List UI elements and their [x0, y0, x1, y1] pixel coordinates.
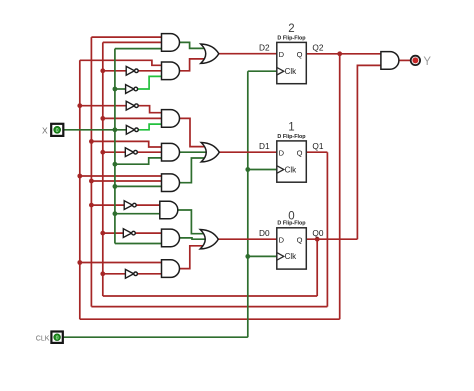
not-gate NOT-2 [126, 101, 138, 110]
wire NOT-b output to AND B in3 [137, 76, 161, 89]
wire AND G output to OR3 in3 [180, 246, 209, 269]
wire AND E output to OR2 in3 [179, 158, 209, 183]
wire Q1 output horizontal FF1.Q [306, 151, 327, 153]
svg-text:Q1: Q1 [312, 141, 323, 151]
wire X to AND D in3 jog [115, 158, 162, 164]
node CLK FF0 junction [245, 254, 250, 259]
wire Q0 vertical drop x=317.2 [316, 239, 318, 296]
wire Q0 to NOT-g input [103, 273, 126, 275]
svg-text:D: D [279, 148, 285, 157]
wire Q0 to NOT-3 input [103, 151, 126, 153]
wire CLK horizontal [63, 336, 248, 338]
svg-text:Q: Q [297, 235, 303, 244]
wire Q2 vertical drop x=339.7 [339, 54, 341, 319]
node V4 y233.1 [100, 231, 105, 236]
wire Q0 to AND A in2 [103, 41, 162, 43]
wire Q0 riser to AND-Y in2 [357, 65, 381, 239]
not-gate NOT-g [125, 269, 137, 278]
wire Q1 to AND D in1 jog [91, 141, 161, 147]
svg-text:Q2: Q2 [312, 42, 323, 52]
wire NOT-f output to AND F in1 [135, 232, 161, 234]
wire D0 OR3 output to FF0.D [218, 238, 276, 240]
node V6 y89 [113, 87, 118, 92]
and-gate Y (Q2,Q0) [381, 52, 399, 70]
flip-flop U1 (bit 1) [259, 122, 324, 183]
output pin Y [411, 56, 432, 68]
wire NOT-3 output to AND D in2 [137, 151, 161, 153]
wire CLK to FF2 clk [248, 70, 277, 72]
svg-text:1: 1 [288, 122, 294, 134]
node V4 y70.8 [100, 68, 105, 73]
wire Q2 left bus V2 x=79.8 [79, 60, 81, 319]
wire Q2 to AND E in1 [80, 175, 162, 177]
node V4 y152.2 [100, 150, 105, 155]
flip-flop U2 (bit 2) [259, 23, 324, 84]
wire Q0 to NOT-f input [103, 232, 124, 234]
not-gate NOT-x [126, 125, 138, 134]
wire CLK riser x=247.8 [247, 71, 249, 337]
or-gate OR3 feeds D0 [200, 230, 218, 249]
node V3 y205.1 [89, 203, 94, 208]
svg-text:D1: D1 [259, 141, 270, 151]
and-gate B (Q2,Q0n,Xn) [162, 62, 180, 80]
wire CLK to FF0 clk [248, 255, 277, 257]
svg-text:Clk: Clk [285, 165, 298, 174]
wire X to AND F in2 [115, 243, 162, 245]
wire CLK to FF1 clk [248, 169, 277, 171]
node V4 y273.8 [100, 271, 105, 276]
wire Q2 output horizontal FF2.Q to AND-Y in1 [306, 53, 381, 55]
node CLK FF1 junction [245, 167, 250, 172]
svg-text:Y: Y [423, 56, 431, 68]
wire Q0 to NOT-a input [103, 70, 126, 72]
wire X input to NOT-x [63, 129, 126, 131]
wire Q1 to NOT-f1 input [91, 204, 124, 206]
wire Q1 vertical drop x=327.4 [326, 152, 328, 306]
svg-text:0: 0 [56, 128, 59, 134]
and-gate A (Q1,Q0,X) [162, 34, 180, 52]
wire Q0 left bus V4 x=102.8 [102, 42, 104, 296]
and-gate F (Q0n,X) [162, 229, 180, 247]
and-gate E (Q2,Q1,X) [162, 174, 180, 192]
svg-text:D0: D0 [259, 228, 270, 238]
wire AND C output to OR2 in1 [179, 118, 209, 146]
svg-text:0: 0 [56, 335, 59, 341]
wire X to NOT-b input [115, 88, 126, 90]
wire AND D output to OR2 in2 [180, 151, 208, 153]
wire X bus V6 x=114.9 [114, 49, 116, 244]
not-gate NOT-a [126, 66, 138, 75]
wire AND F output to OR3 in2 [179, 238, 206, 239]
svg-text:0: 0 [288, 210, 294, 222]
wire NOT-g output to AND G in2 [137, 273, 161, 275]
wire X to AND A in3 [115, 48, 162, 50]
wire Q1 bottom wrap y=306.6 [91, 306, 327, 308]
and-gate G (Q2,Q0n) [162, 260, 180, 278]
svg-text:D: D [279, 235, 285, 244]
wire Q2 to NOT-2 input [80, 105, 126, 107]
flip-flop U0 (bit 0) [259, 210, 324, 269]
svg-text:CLK: CLK [36, 336, 50, 343]
node V2 y262.5 [77, 260, 82, 265]
wire Q2 bottom wrap y=319.2 [80, 318, 340, 320]
wire D2 OR1 output to FF2.D [218, 53, 276, 55]
or-gate OR2 feeds D1 [201, 143, 219, 162]
not-gate NOT-f [123, 229, 135, 238]
node V3 y141.4 [89, 139, 94, 144]
wire X to AND E in3 [115, 185, 162, 187]
and-gate D (Q1,Q0n,X) [162, 143, 180, 161]
wire Q2 top run to AND B in1 jog [80, 60, 162, 65]
wire AND F1 output to OR3 in1 [178, 210, 209, 234]
not-gate NOT-f1 [124, 201, 136, 210]
wire Q0 bottom wrap y=296 [103, 295, 317, 297]
svg-text:D Flip-Flop: D Flip-Flop [277, 134, 306, 140]
wire AND-Y output to pin Y [399, 59, 411, 61]
svg-text:X: X [42, 125, 48, 135]
wire Q1 to AND A in1 [91, 36, 161, 38]
or-gate OR1 feeds D2 [201, 44, 219, 63]
wire Q1 left bus V3 x=91.4 [90, 37, 92, 307]
wire D1 OR2 output to FF1.D [219, 151, 276, 153]
wire NOT-x output to AND C in3 [138, 124, 161, 130]
svg-text:D: D [279, 50, 285, 59]
svg-text:Q0: Q0 [312, 228, 323, 238]
input pin X [42, 124, 63, 136]
node Q0 junction [315, 237, 320, 242]
wire AND A output to OR1 in1 [179, 42, 207, 48]
svg-text:Clk: Clk [285, 252, 298, 261]
and-gate F1 (Q1n,X) [160, 201, 178, 219]
node V3 y181 [89, 179, 94, 184]
node V4 y118.4 [100, 116, 105, 121]
wire NOT-a output to AND B in2 [138, 70, 162, 72]
svg-text:Q: Q [297, 148, 303, 157]
node V2 y176 [77, 174, 82, 179]
wire X to AND F1 in2 [115, 213, 160, 215]
svg-text:D2: D2 [259, 42, 270, 52]
wire Q1 to AND E in2 [91, 180, 161, 182]
svg-text:Clk: Clk [285, 67, 298, 76]
wire Q2 to AND G in1 [80, 262, 162, 264]
node V6 y164.2 [113, 162, 118, 167]
input pin CLK [36, 332, 63, 343]
node V6 y186.4 [113, 184, 118, 189]
wire NOT-f1 output to AND F1 in1 [136, 204, 160, 206]
node V6 y213.7 [113, 211, 118, 216]
svg-text:2: 2 [288, 23, 294, 35]
node V2 y105.7 [77, 103, 82, 108]
node Q2-AND-Y junction [337, 51, 342, 56]
wire NOT-2 output to AND C in1 [138, 106, 162, 113]
node X junction on V6 [113, 127, 118, 132]
svg-text:D Flip-Flop: D Flip-Flop [277, 35, 306, 41]
svg-text:Q: Q [297, 50, 303, 59]
not-gate NOT-3 [125, 148, 137, 157]
wire AND B output to OR1 in2 [179, 59, 207, 71]
wire Q0 output horizontal FF0.Q [306, 238, 357, 240]
wire Q0 to AND C in2 [103, 117, 162, 119]
not-gate NOT-b [126, 85, 138, 94]
and-gate C (Q2n,Q0,Xn) [162, 110, 180, 128]
